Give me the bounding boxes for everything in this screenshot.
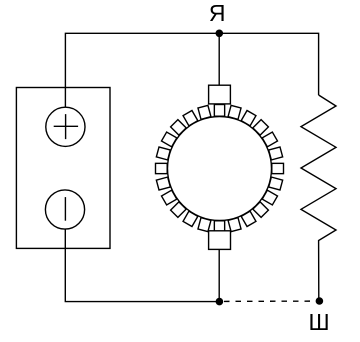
wire bottom brush to bottom node xyxy=(218,249,220,301)
dashed wire to node Ш xyxy=(224,300,316,302)
bottom junction node dot xyxy=(216,298,224,306)
wire bottom from source to node xyxy=(65,229,219,302)
node Я junction dot xyxy=(216,30,224,38)
svg-text:Я: Я xyxy=(209,0,226,26)
wire top rail from source to node Я to resistor xyxy=(65,33,318,107)
top brush xyxy=(209,85,231,104)
node Ш terminal dot xyxy=(316,297,324,305)
wire node Я to top brush xyxy=(218,33,220,85)
source positive terminal circle + xyxy=(46,107,85,146)
source negative terminal circle with bar xyxy=(45,190,84,229)
armature rotor circle xyxy=(168,117,272,221)
armature commutator teeth (24 segments) xyxy=(156,105,284,233)
bottom brush xyxy=(209,231,231,250)
battery box (source enclosure) xyxy=(16,88,110,249)
svg-text:Ш: Ш xyxy=(308,309,329,335)
label Ш (shunt terminal) xyxy=(308,309,329,335)
label Я (armature terminal) xyxy=(209,0,226,26)
resistor Rш zigzag xyxy=(301,95,336,301)
